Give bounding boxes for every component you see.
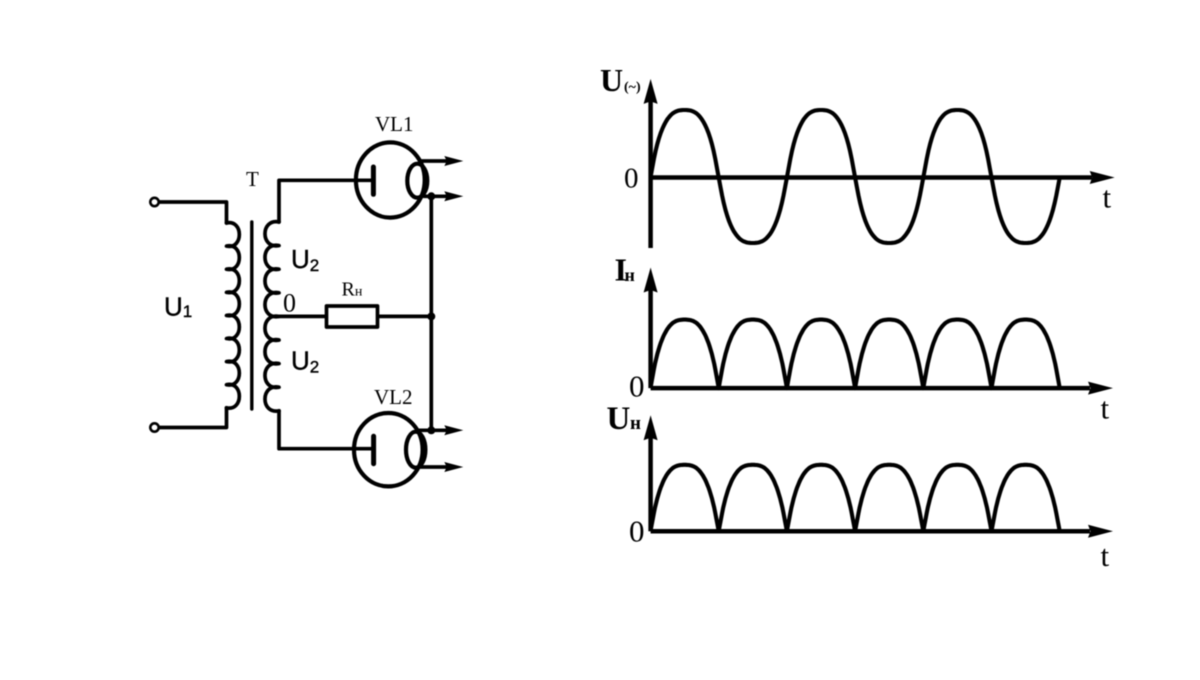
svg-text:(~): (~) bbox=[624, 80, 641, 95]
svg-text:t: t bbox=[1101, 538, 1110, 573]
svg-text:T: T bbox=[246, 167, 259, 191]
svg-text:н: н bbox=[630, 413, 641, 434]
svg-text:U: U bbox=[600, 62, 623, 98]
svg-text:VL2: VL2 bbox=[374, 385, 413, 409]
svg-text:0: 0 bbox=[629, 369, 645, 404]
svg-text:0: 0 bbox=[624, 162, 639, 194]
svg-text:t: t bbox=[1103, 180, 1112, 215]
svg-text:t: t bbox=[1101, 391, 1110, 426]
svg-text:0: 0 bbox=[629, 514, 645, 549]
svg-text:н: н bbox=[625, 265, 635, 285]
svg-text:VL1: VL1 bbox=[375, 112, 414, 136]
svg-text:0: 0 bbox=[283, 289, 296, 318]
svg-text:U: U bbox=[607, 401, 631, 437]
